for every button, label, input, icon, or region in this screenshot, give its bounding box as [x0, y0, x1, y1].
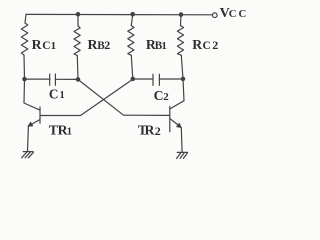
svg-text:1: 1	[161, 40, 167, 52]
wire C1 right plate to node B2	[55, 78, 78, 80]
Vcc terminal circle	[213, 13, 218, 18]
svg-text:2: 2	[163, 91, 169, 103]
wire RB2 bottom lead	[76, 56, 79, 80]
svg-text:C: C	[229, 8, 237, 20]
wire TR2 emitter to ground	[180, 128, 183, 153]
label TR1	[49, 123, 72, 138]
label C1	[49, 87, 65, 102]
junction dot node B	[181, 77, 184, 80]
label RB2	[88, 37, 111, 52]
wire node A to C1 left plate	[25, 78, 50, 80]
label RB1	[146, 37, 167, 52]
wire RB1 node to C2 left plate	[133, 78, 153, 80]
wire node B down to TR2 collector	[170, 79, 184, 109]
label Vcc	[220, 6, 247, 21]
junction dot RB1 top	[131, 13, 134, 16]
junction dot Rc2 top	[179, 13, 182, 16]
transistor TR1	[28, 107, 40, 126]
svg-text:2: 2	[104, 38, 110, 52]
label Rc2	[192, 37, 218, 52]
svg-text:C: C	[239, 8, 247, 20]
resistor RB1	[128, 26, 134, 56]
resistor Rc2	[177, 26, 183, 56]
capacitor C2	[153, 74, 159, 85]
wire RB2 top lead	[77, 14, 79, 26]
junction dot C2-RB1 node	[131, 77, 134, 80]
svg-text:C: C	[154, 88, 164, 103]
label TR2	[138, 123, 161, 138]
wire RB1 top lead	[131, 14, 132, 25]
resistor RB2	[74, 26, 80, 56]
wire TR1 emitter to ground	[27, 126, 30, 151]
svg-text:1: 1	[60, 90, 65, 101]
wire RB1 bottom lead	[131, 55, 133, 79]
capacitor C1	[50, 74, 56, 85]
svg-text:C: C	[203, 40, 211, 52]
svg-text:2: 2	[212, 38, 218, 52]
junction dot RB2 top	[76, 13, 79, 16]
ground TR1	[22, 152, 34, 158]
svg-text:R: R	[32, 37, 43, 52]
wire C2 right plate to node B	[159, 78, 183, 80]
svg-text:1: 1	[67, 127, 72, 138]
junction dot node A	[23, 77, 26, 80]
wire TR1 base cross-coupling to C2 node	[40, 79, 133, 115]
label C2	[154, 88, 170, 103]
svg-text:C: C	[49, 87, 59, 102]
wire Rc1 top lead	[25, 14, 26, 23]
label Rc1	[32, 37, 56, 52]
wire Vcc top rail	[26, 13, 213, 15]
wire TR2 base cross-coupling to C1 node	[78, 80, 170, 116]
junction dot C1-RB2 node	[76, 78, 79, 81]
svg-text:1: 1	[51, 40, 57, 52]
wire Rc2 top lead	[180, 15, 183, 26]
svg-text:2: 2	[155, 124, 161, 138]
wire Rc2 bottom lead	[181, 55, 183, 79]
wire Rc1 bottom lead	[23, 55, 26, 79]
resistor Rc1	[21, 23, 28, 55]
wire node A down to TR1 collector	[24, 79, 40, 110]
svg-text:C: C	[42, 40, 50, 52]
transistor TR2	[170, 107, 182, 132]
ground TR2	[177, 152, 188, 158]
